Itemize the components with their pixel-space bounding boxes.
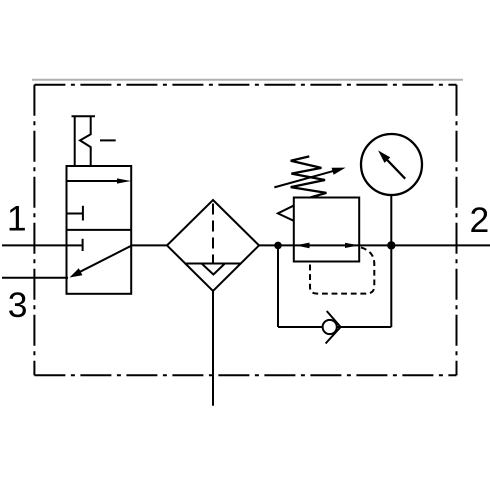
svg-text:3: 3 [8,285,28,325]
filter element dashed line [212,204,214,264]
port 1 line [2,244,67,246]
wire valve to filter [131,244,167,246]
blocked port T (top cell) [67,206,83,221]
check valve seat [326,311,341,344]
water separator line [185,263,242,265]
valve exhaust diagonal arrow [70,246,132,278]
valve flow arrow (open position) [67,178,132,183]
pressure gauge G1 [361,134,422,195]
junction dot A [274,242,282,250]
enclosure dash-dot border right [456,85,458,376]
regulator adjustment spring [291,156,327,197]
gray separator line [32,79,463,81]
valve manual actuator [72,116,116,166]
svg-text:2: 2 [470,200,490,240]
enclosure dash-dot border left [33,85,35,376]
wire regulator to port 2 [359,244,490,246]
filter F1 diamond [167,200,259,291]
branch wire down from dot A [277,245,279,327]
check valve loop right wire [390,245,392,327]
wire filter to regulator [259,244,294,246]
on-off valve V1 body [67,166,132,294]
check valve CV1 circle [323,320,337,334]
junction dot B [387,241,395,249]
port 3 line [2,277,68,279]
svg-text:1: 1 [7,199,27,239]
regulator relief chevron spring [278,206,294,221]
regulator R1 body [294,198,359,262]
enclosure dash-dot border bottom [34,374,456,376]
adjustment arrow [274,168,345,188]
pilot feedback line (dashed) [310,247,374,293]
regulator flow line with double arrow [294,243,359,249]
gauge stem wire [390,195,392,245]
enclosure dash-dot border top [34,84,456,86]
drain line [212,291,214,406]
water separator triangle [202,264,225,275]
check valve loop bottom wire [278,326,391,328]
blocked port T (bottom cell) [68,239,83,251]
